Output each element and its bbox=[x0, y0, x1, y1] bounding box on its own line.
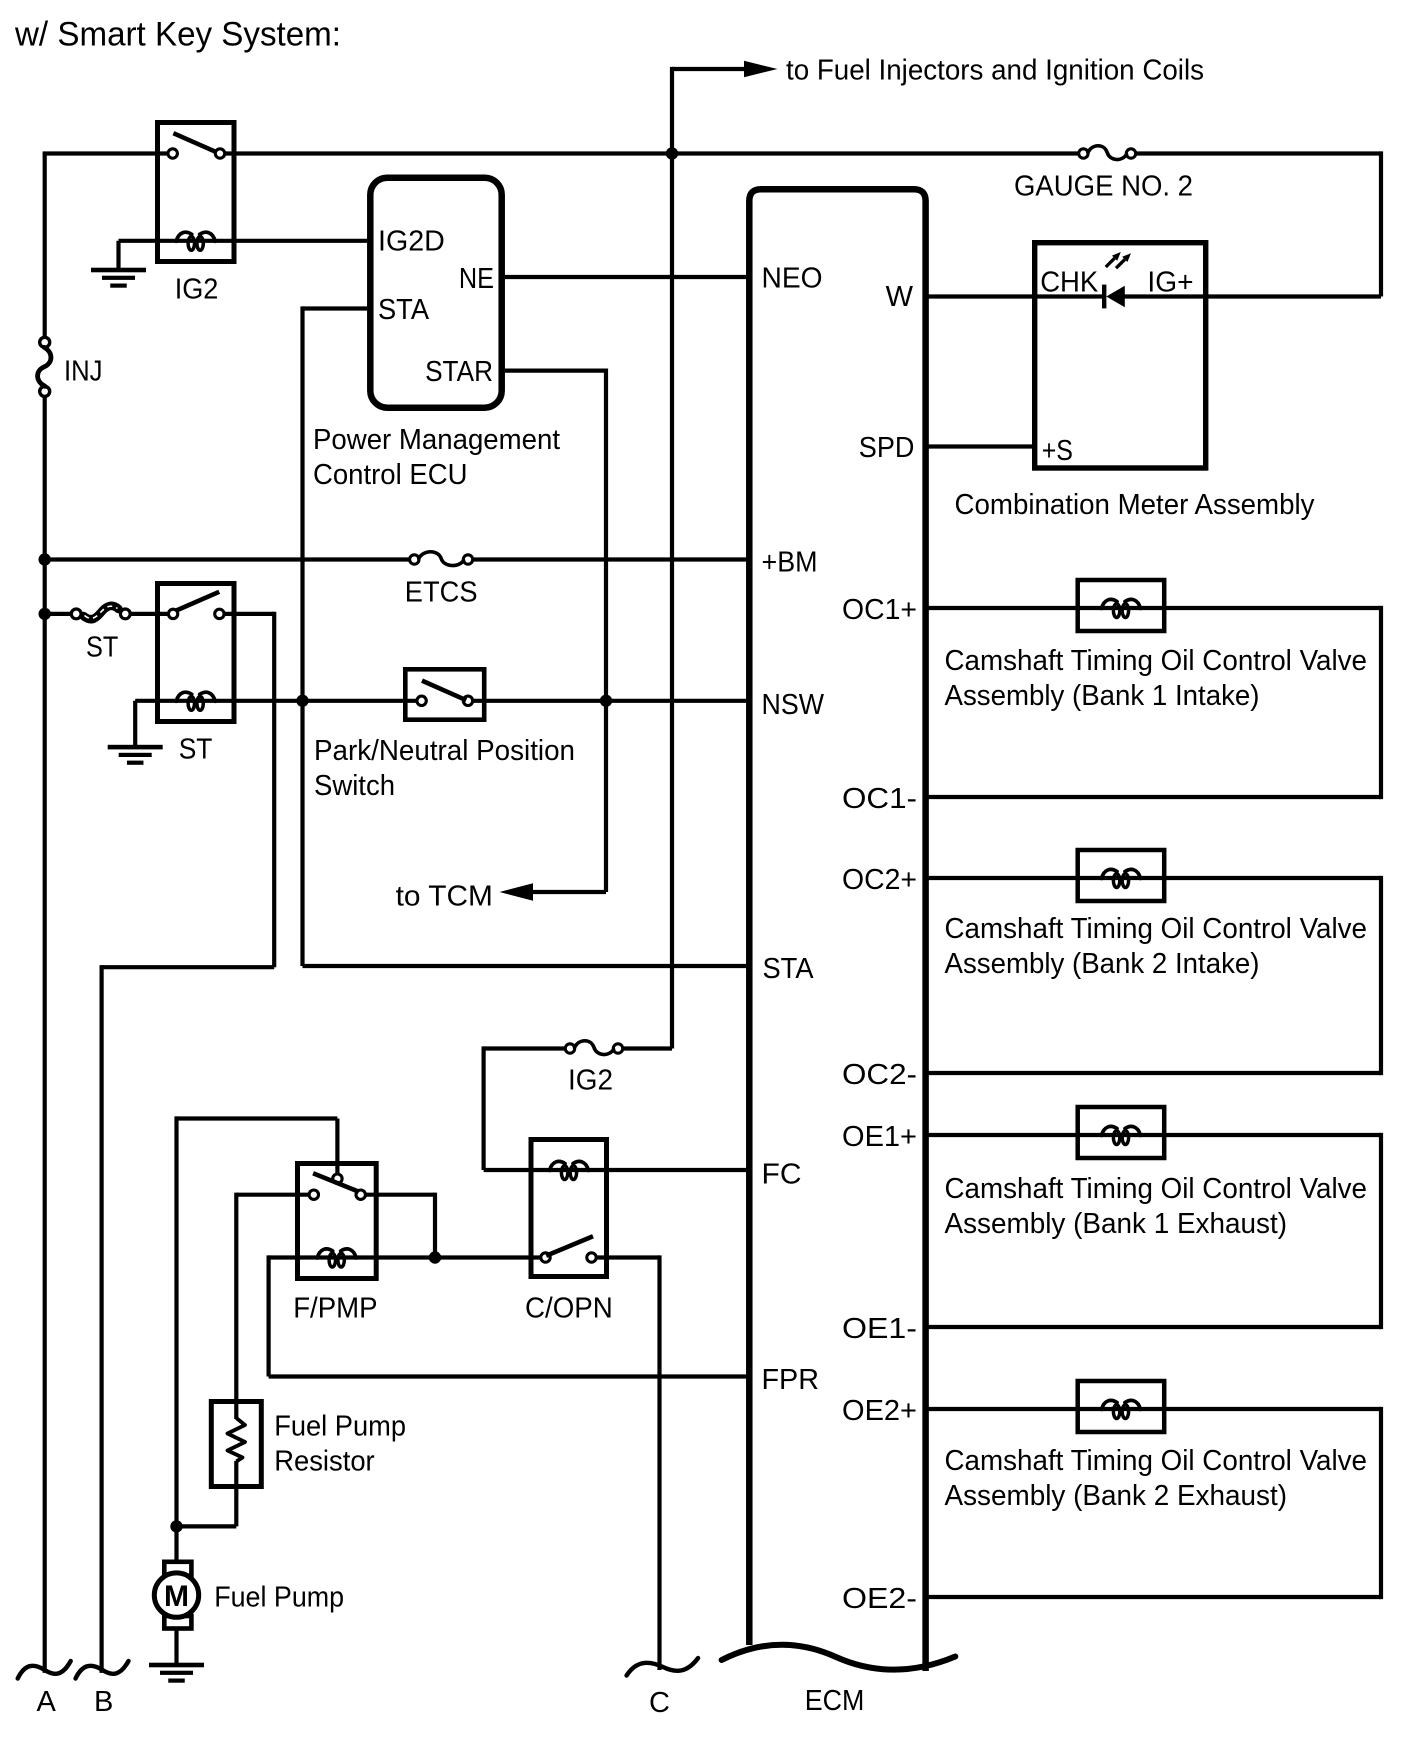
svg-text:Assembly (Bank 1 Intake): Assembly (Bank 1 Intake) bbox=[945, 680, 1260, 712]
svg-text:OE2+: OE2+ bbox=[842, 1395, 917, 1427]
svg-text:Power Management: Power Management bbox=[313, 424, 560, 456]
svg-text:ST: ST bbox=[86, 632, 119, 664]
svg-text:IG2D: IG2D bbox=[378, 226, 445, 258]
svg-text:Fuel Pump: Fuel Pump bbox=[214, 1582, 344, 1614]
svg-text:CHK: CHK bbox=[1040, 267, 1099, 299]
svg-text:OC1+: OC1+ bbox=[842, 594, 917, 626]
svg-text:FPR: FPR bbox=[762, 1364, 820, 1396]
svg-text:SPD: SPD bbox=[859, 432, 915, 464]
svg-text:Camshaft Timing Oil Control Va: Camshaft Timing Oil Control Valve bbox=[945, 913, 1368, 945]
svg-text:OC2-: OC2- bbox=[842, 1059, 917, 1091]
svg-text:FC: FC bbox=[762, 1159, 802, 1191]
svg-text:Assembly (Bank 2 Intake): Assembly (Bank 2 Intake) bbox=[945, 948, 1260, 980]
svg-text:to Fuel Injectors and Ignition: to Fuel Injectors and Ignition Coils bbox=[786, 55, 1204, 87]
svg-text:ETCS: ETCS bbox=[405, 577, 478, 609]
svg-text:Park/Neutral Position: Park/Neutral Position bbox=[314, 735, 575, 767]
svg-text:OC1-: OC1- bbox=[842, 783, 917, 815]
svg-text:Combination Meter Assembly: Combination Meter Assembly bbox=[955, 489, 1315, 521]
svg-text:IG+: IG+ bbox=[1147, 267, 1193, 299]
svg-text:OE1+: OE1+ bbox=[842, 1121, 917, 1153]
svg-text:IG2: IG2 bbox=[568, 1065, 613, 1097]
svg-text:Fuel Pump: Fuel Pump bbox=[274, 1411, 406, 1443]
svg-text:B: B bbox=[94, 1686, 113, 1718]
svg-text:M: M bbox=[164, 1580, 189, 1613]
svg-text:NEO: NEO bbox=[762, 263, 823, 295]
svg-text:Resistor: Resistor bbox=[274, 1446, 375, 1478]
svg-text:w/ Smart Key System:: w/ Smart Key System: bbox=[14, 16, 341, 54]
svg-text:IG2: IG2 bbox=[175, 274, 219, 306]
svg-text:NE: NE bbox=[459, 263, 494, 295]
svg-text:C: C bbox=[649, 1687, 670, 1719]
svg-text:OE2-: OE2- bbox=[842, 1583, 917, 1615]
svg-text:Switch: Switch bbox=[314, 770, 395, 802]
svg-text:STAR: STAR bbox=[425, 356, 493, 388]
svg-text:F/PMP: F/PMP bbox=[293, 1293, 377, 1325]
svg-text:STA: STA bbox=[378, 294, 430, 326]
svg-text:Camshaft Timing Oil Control Va: Camshaft Timing Oil Control Valve bbox=[945, 1173, 1368, 1205]
svg-text:OE1-: OE1- bbox=[842, 1313, 917, 1345]
svg-text:W: W bbox=[886, 281, 914, 313]
svg-text:Assembly (Bank 2 Exhaust): Assembly (Bank 2 Exhaust) bbox=[945, 1480, 1288, 1512]
svg-text:Camshaft Timing Oil Control Va: Camshaft Timing Oil Control Valve bbox=[945, 645, 1368, 677]
svg-text:Camshaft Timing Oil Control Va: Camshaft Timing Oil Control Valve bbox=[945, 1445, 1368, 1477]
svg-text:INJ: INJ bbox=[64, 356, 103, 388]
svg-text:Assembly (Bank 1 Exhaust): Assembly (Bank 1 Exhaust) bbox=[945, 1208, 1288, 1240]
svg-text:ECM: ECM bbox=[805, 1685, 865, 1717]
svg-text:ST: ST bbox=[179, 734, 213, 766]
svg-text:C/OPN: C/OPN bbox=[525, 1293, 613, 1325]
svg-text:NSW: NSW bbox=[762, 689, 825, 721]
svg-text:+BM: +BM bbox=[762, 547, 818, 579]
svg-text:STA: STA bbox=[763, 953, 815, 985]
svg-text:OC2+: OC2+ bbox=[842, 864, 917, 896]
svg-text:Control ECU: Control ECU bbox=[313, 459, 468, 491]
svg-text:to TCM: to TCM bbox=[396, 881, 493, 913]
svg-text:A: A bbox=[37, 1686, 57, 1718]
svg-text:+S: +S bbox=[1042, 435, 1073, 467]
svg-text:GAUGE NO. 2: GAUGE NO. 2 bbox=[1014, 171, 1193, 203]
